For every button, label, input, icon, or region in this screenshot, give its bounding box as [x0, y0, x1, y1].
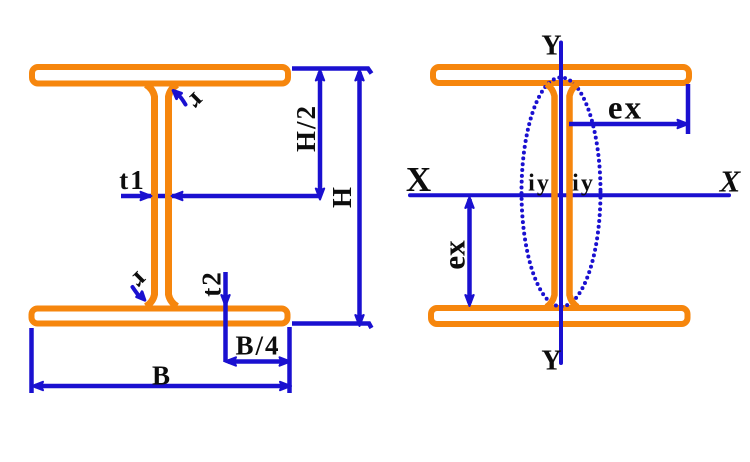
I-beam 2 web right wall with fillets [570, 84, 578, 307]
extension line mid-height [121, 194, 320, 199]
X axis line [410, 193, 729, 197]
svg-text:r: r [125, 266, 155, 296]
dimension ex top: line with arrow [569, 120, 689, 128]
svg-text:B: B [152, 361, 170, 391]
svg-text:t1: t1 [119, 165, 146, 195]
svg-text:B/4: B/4 [235, 331, 280, 361]
svg-text:iy: iy [528, 171, 551, 197]
svg-text:Y: Y [541, 346, 561, 377]
extension line top (flange top level) [292, 69, 372, 74]
gyration ellipse (dotted) [522, 78, 601, 307]
dimension ex bottom-left line [465, 197, 473, 306]
svg-text:ex: ex [608, 91, 643, 127]
dimension t2 line [221, 272, 229, 362]
I-beam 2 web left wall with fillets [547, 84, 555, 307]
dimension H line [355, 70, 363, 327]
extension line right of bottom flange [287, 327, 292, 393]
extension line bottom (flange bottom level) [292, 324, 372, 329]
dimension B/4 line [225, 357, 291, 365]
svg-text:Y: Y [541, 31, 561, 62]
I-beam 2 bottom flange [431, 308, 688, 324]
fillet radius annotation r (bottom) : arrow [133, 287, 148, 303]
dimension t1 arrows [141, 192, 183, 200]
extension line left of bottom flange [29, 328, 34, 393]
fillet radius annotation r (top) : arrow [171, 88, 186, 105]
Y axis line [559, 43, 563, 364]
svg-text:ex: ex [437, 240, 472, 270]
svg-text:H: H [327, 187, 357, 208]
dimension ex top: extension line [686, 84, 691, 134]
I-beam 1 bottom flange [32, 309, 288, 324]
svg-text:iy: iy [572, 171, 595, 197]
svg-text:X: X [406, 160, 431, 199]
svg-text:H/2: H/2 [291, 104, 321, 152]
svg-text:r: r [182, 87, 212, 117]
I-beam 1 web left wall with fillets [146, 85, 155, 307]
dimension B line [32, 382, 291, 390]
dimension H/2 line [316, 70, 324, 200]
I-beam 1 top flange [32, 67, 288, 84]
I-beam 1 web right wall with fillets [169, 85, 178, 307]
I-beam 2 top flange [433, 67, 689, 83]
svg-text:t2: t2 [197, 270, 227, 297]
svg-text:X: X [719, 164, 742, 199]
